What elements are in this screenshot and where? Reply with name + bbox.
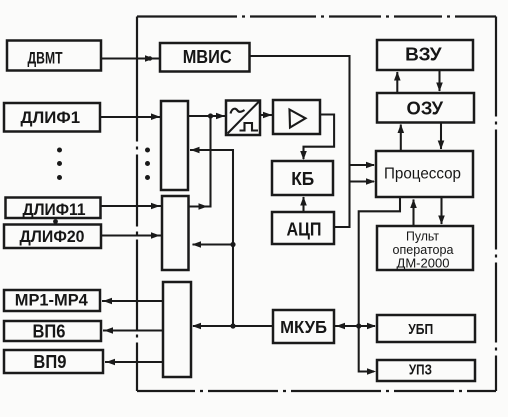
- svg-text:УБП: УБП: [408, 321, 433, 338]
- svg-text:ДЛИФ1: ДЛИФ1: [21, 108, 81, 127]
- svg-text:ДЛИФ20: ДЛИФ20: [20, 227, 85, 246]
- svg-text:УПЗ: УПЗ: [409, 363, 432, 379]
- svg-text:ДЛИФ11: ДЛИФ11: [23, 201, 86, 219]
- svg-text:ВП6: ВП6: [33, 322, 66, 342]
- svg-text:ВП9: ВП9: [33, 352, 66, 372]
- svg-text:АЦП: АЦП: [287, 219, 322, 240]
- svg-text:КБ: КБ: [291, 168, 314, 189]
- svg-text:МКУБ: МКУБ: [280, 317, 327, 337]
- svg-text:Пульт: Пульт: [406, 230, 439, 244]
- svg-text:ДМ-2000: ДМ-2000: [397, 257, 450, 271]
- svg-text:ДВМТ: ДВМТ: [28, 49, 64, 68]
- svg-text:ВЗУ: ВЗУ: [405, 44, 442, 65]
- svg-text:оператора: оператора: [393, 243, 454, 257]
- svg-text:ОЗУ: ОЗУ: [407, 98, 444, 119]
- svg-text:МР1-МР4: МР1-МР4: [15, 291, 89, 310]
- svg-text:Процессор: Процессор: [384, 166, 461, 183]
- svg-text:МВИС: МВИС: [183, 46, 232, 67]
